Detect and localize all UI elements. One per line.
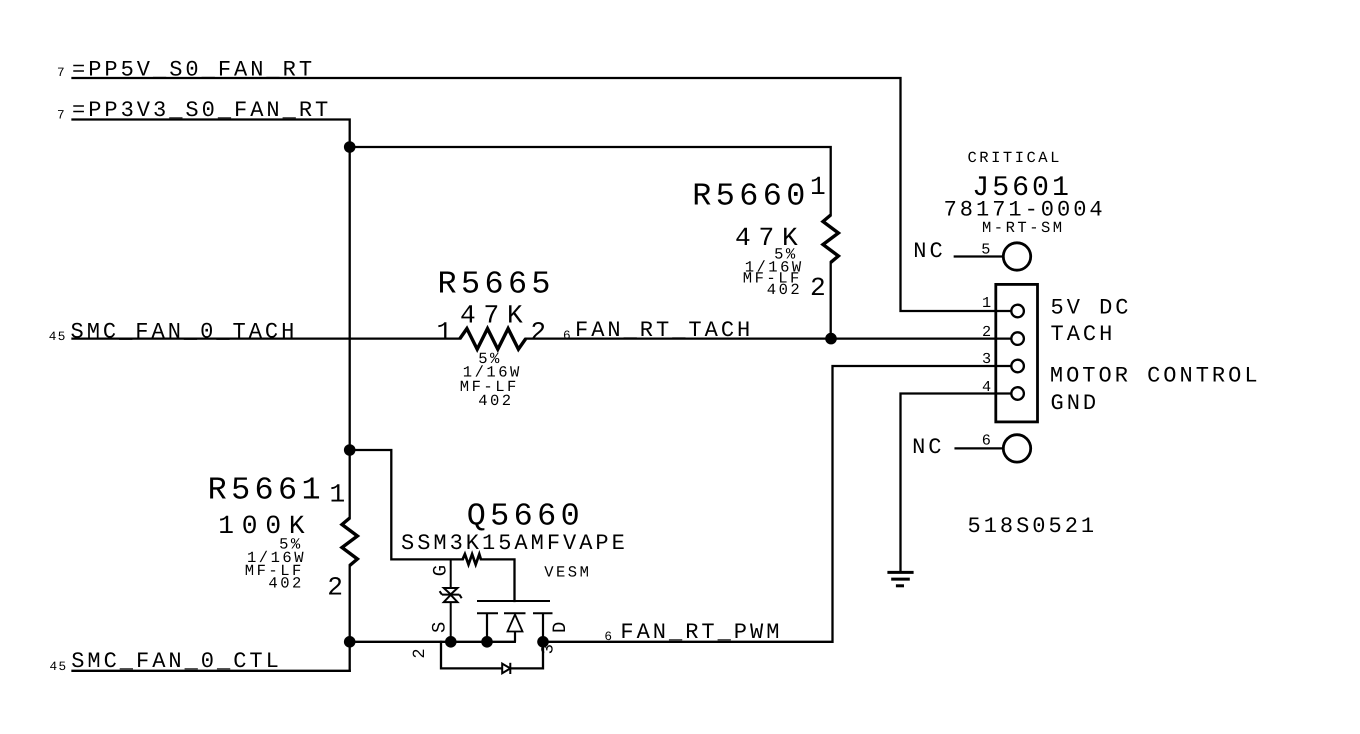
svg-text:6: 6	[604, 629, 613, 644]
resistor R5665 47K zigzag	[460, 329, 526, 350]
svg-text:1: 1	[330, 479, 354, 509]
svg-text:518S0521: 518S0521	[968, 514, 1098, 539]
svg-text:Q5660: Q5660	[467, 499, 584, 535]
NC pin 5 circle	[1003, 243, 1030, 270]
wire body diode loop left	[441, 642, 502, 669]
resistor R5661 100K zigzag	[342, 518, 357, 566]
svg-text:R5665: R5665	[438, 267, 555, 303]
svg-text:7: 7	[57, 108, 66, 123]
node junction dot CTL / R5661 bottom	[344, 636, 356, 648]
transistor Q5660 gate plate	[477, 600, 550, 602]
wire SMC_FAN_0_TACH to R5665 pin1	[73, 337, 460, 339]
svg-text:45: 45	[49, 329, 67, 344]
resistor Q5660 internal gate resistor zigzag	[463, 554, 481, 564]
svg-text:3: 3	[982, 350, 991, 368]
svg-text:2: 2	[982, 323, 991, 341]
svg-text:=PP3V3_S0_FAN_RT: =PP3V3_S0_FAN_RT	[72, 98, 331, 123]
wire gate branch from node A to Q5660 gate	[350, 450, 463, 559]
svg-text:FAN_RT_PWM: FAN_RT_PWM	[620, 620, 782, 645]
ground symbol	[887, 572, 913, 585]
resistor R5660 47K zigzag	[823, 215, 838, 262]
svg-text:TACH: TACH	[1051, 322, 1116, 347]
wire SMC_FAN_0_CTL horizontal	[73, 670, 350, 672]
connector pin 3 circle	[1011, 360, 1024, 373]
wire NC pin6 stub	[956, 447, 1004, 449]
node junction dot TACH/R5660	[825, 333, 837, 345]
svg-text:R5660: R5660	[692, 179, 809, 215]
NC pin 6 circle	[1003, 435, 1030, 462]
body diode D of Q5660	[502, 663, 510, 674]
svg-text:402: 402	[767, 281, 802, 299]
svg-text:CRITICAL: CRITICAL	[968, 149, 1062, 167]
svg-text:=PP5V_S0_FAN_RT: =PP5V_S0_FAN_RT	[72, 58, 315, 83]
svg-text:5V DC: 5V DC	[1051, 296, 1132, 321]
svg-text:5: 5	[981, 240, 990, 258]
svg-text:1: 1	[810, 172, 834, 202]
svg-text:1: 1	[437, 318, 461, 348]
svg-text:6: 6	[563, 328, 572, 343]
svg-text:M-RT-SM: M-RT-SM	[982, 219, 1065, 237]
wire PP5V_S0_FAN_RT horizontal rail	[73, 78, 1012, 311]
svg-text:402: 402	[268, 575, 303, 593]
svg-text:FAN_RT_TACH: FAN_RT_TACH	[575, 318, 753, 343]
zener gate-source protection diode	[440, 559, 462, 641]
svg-text:S: S	[429, 622, 451, 633]
svg-text:R5661: R5661	[208, 473, 325, 509]
wire FAN_RT_PWM from drain to connector pin3	[543, 366, 1011, 642]
svg-text:47K: 47K	[460, 300, 531, 330]
node junction dot R5661 top / gate branch	[344, 444, 356, 456]
svg-text:2: 2	[810, 273, 834, 303]
svg-text:4: 4	[982, 378, 991, 396]
node junction dot zener source	[445, 636, 457, 648]
connector pin 4 circle	[1011, 387, 1024, 400]
svg-text:G: G	[430, 565, 452, 576]
svg-text:2: 2	[530, 318, 554, 348]
svg-text:NC: NC	[913, 239, 945, 264]
svg-text:SMC_FAN_0_TACH: SMC_FAN_0_TACH	[71, 320, 298, 345]
node junction dot PP3V3/R5660 branch	[344, 141, 356, 153]
transistor Q5660 channel segments	[477, 612, 553, 614]
svg-text:VESM: VESM	[544, 564, 591, 582]
wire R5661 bottom lead and SMC_FAN_0_CTL vertical	[349, 566, 351, 671]
wire NC pin5 stub	[955, 255, 1004, 257]
svg-text:MOTOR CONTROL: MOTOR CONTROL	[1050, 364, 1261, 389]
svg-text:402: 402	[478, 392, 513, 410]
svg-text:6: 6	[982, 432, 991, 450]
svg-text:7: 7	[57, 65, 66, 80]
svg-text:SMC_FAN_0_CTL: SMC_FAN_0_CTL	[71, 649, 282, 674]
wire source rail	[350, 641, 515, 643]
node junction dot source stub	[481, 636, 493, 648]
wire FAN_RT_TACH from R5665 pin2 to connector pin2	[526, 337, 1011, 339]
transistor Q5660 source stub	[486, 613, 488, 642]
wire R5660 bottom lead to TACH net	[830, 262, 832, 338]
svg-text:2: 2	[327, 573, 351, 603]
svg-text:D: D	[549, 622, 571, 633]
svg-text:1: 1	[982, 294, 991, 312]
node junction dot drain	[537, 636, 549, 648]
connector pin 1 circle	[1011, 305, 1024, 318]
svg-text:NC: NC	[912, 435, 944, 460]
wire PP3V3 to R5660 top	[350, 147, 831, 215]
svg-text:3: 3	[540, 644, 559, 654]
svg-text:45: 45	[50, 659, 68, 674]
connector pin 2 circle	[1011, 332, 1024, 345]
svg-text:SSM3K15AMFVAPE: SSM3K15AMFVAPE	[401, 531, 628, 556]
svg-text:GND: GND	[1051, 391, 1100, 416]
transistor Q5660 drain stub	[542, 613, 544, 642]
wire PP3V3_S0_FAN_RT horizontal rail	[73, 120, 350, 519]
connector J5601 body rectangle	[996, 284, 1038, 422]
wire connector pin4 to ground	[901, 394, 1012, 572]
transistor Q5660 body arrow	[508, 615, 523, 642]
wire body diode loop right	[510, 642, 543, 669]
wire gate resistor output to gate plate	[481, 559, 515, 601]
svg-text:2: 2	[411, 648, 430, 658]
